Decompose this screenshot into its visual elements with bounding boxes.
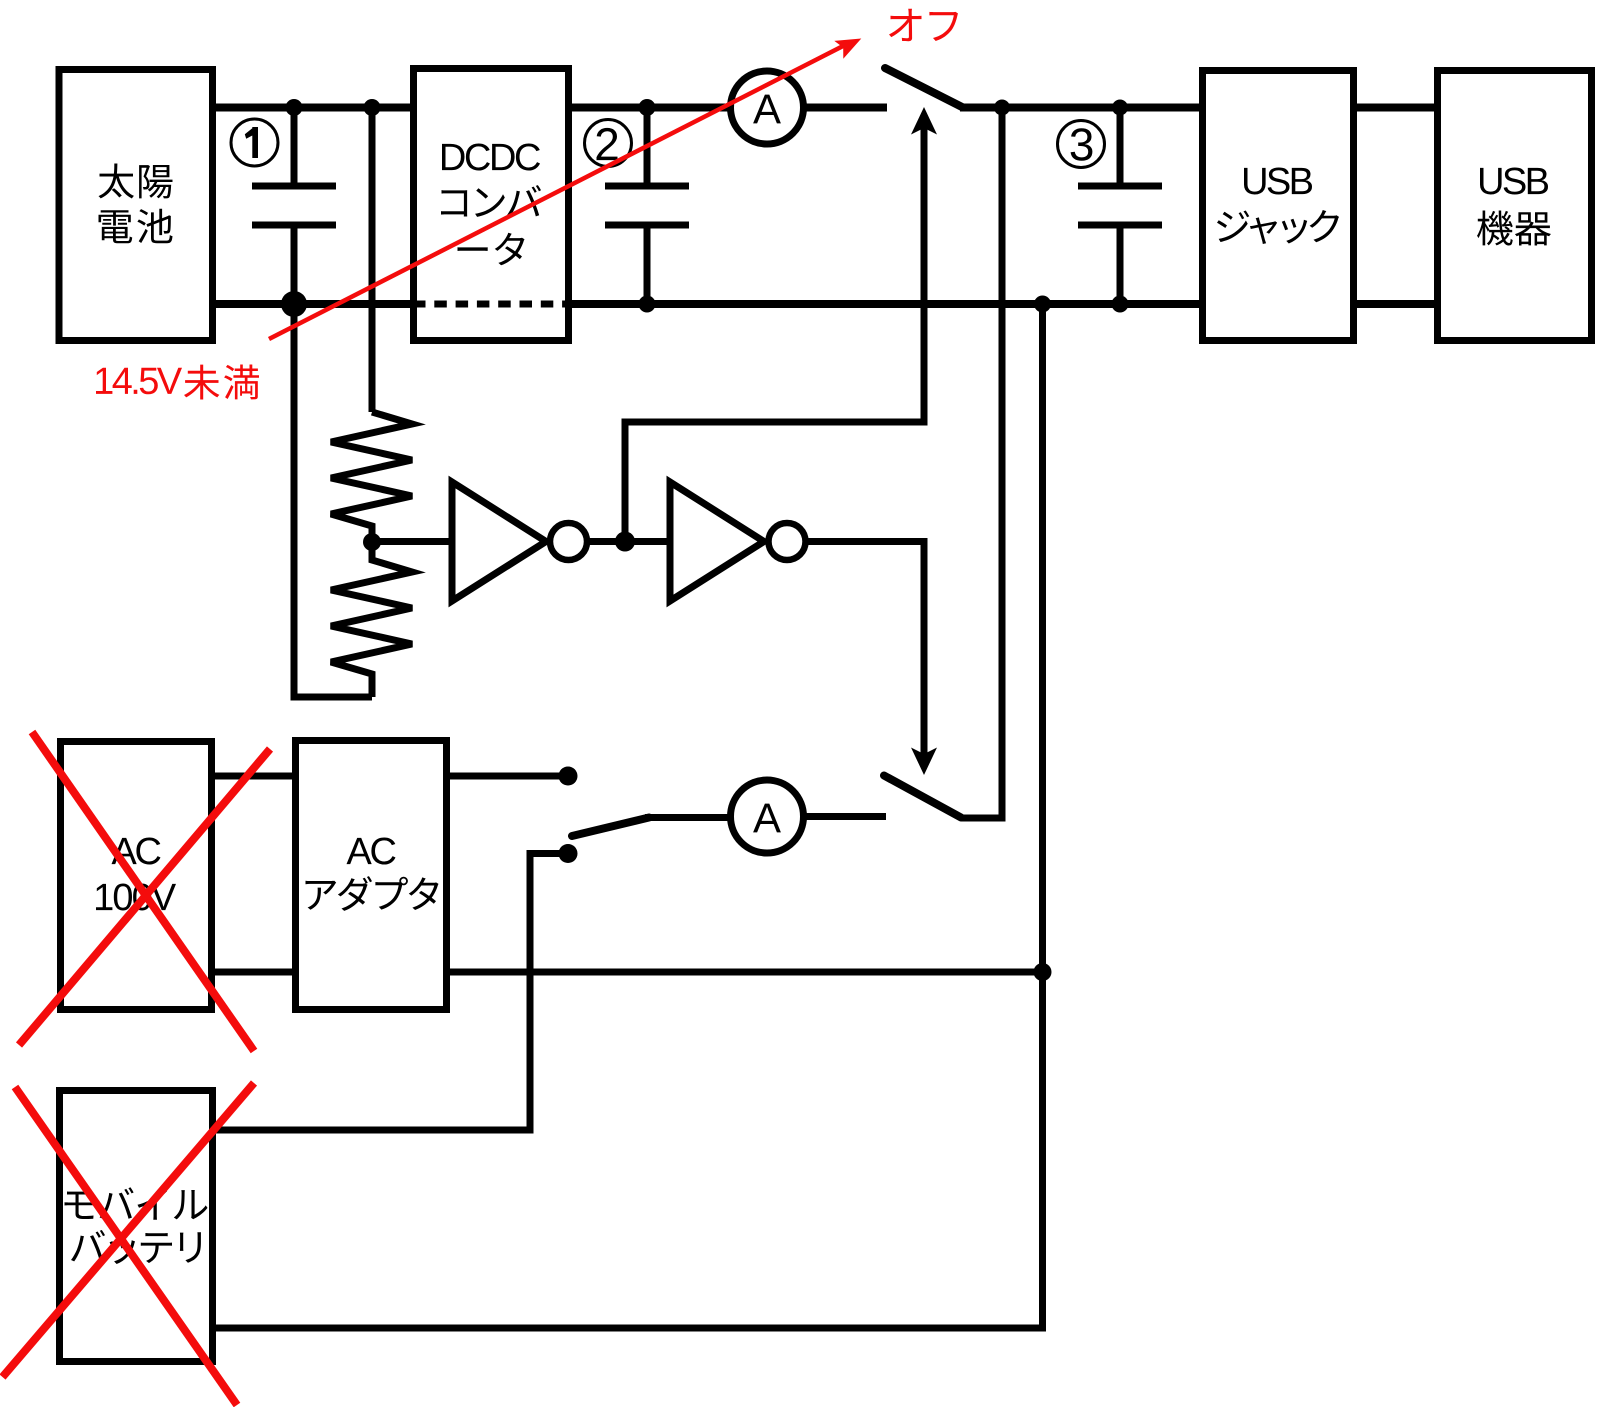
red arrowhead off — [834, 39, 861, 59]
node divider midpoint junction — [363, 533, 381, 551]
resistor R2 — [331, 542, 412, 697]
node number 2 circle — [585, 120, 632, 167]
wire SW3 lower contact to mobile battery — [212, 854, 568, 1131]
USB jack label line2 — [1217, 210, 1339, 244]
red label 14.5V part — [96, 368, 182, 395]
wire top rail solar to DCDC — [212, 104, 414, 112]
capacitor C2 plates — [605, 183, 689, 190]
capacitor C3 plates — [1078, 183, 1162, 190]
capacitor C2 top lead — [644, 108, 651, 187]
wire AC adapter output to SW3 upper contact — [446, 773, 568, 780]
solar battery box — [59, 70, 213, 341]
node number 1 digit — [245, 127, 258, 158]
node U1 output junction — [615, 532, 635, 552]
DCDC converter box U3 — [414, 69, 569, 341]
red X over AC 100V stroke 1 — [32, 732, 254, 1051]
capacitor C3 top lead — [1117, 108, 1124, 187]
node number 3 circle — [1058, 121, 1105, 168]
resistor R1 — [331, 412, 412, 542]
red X over AC 100V stroke 2 — [19, 749, 270, 1045]
wire top rail ammeter A1 to switch SW1 — [802, 104, 887, 112]
wire SW1 output down to SW2 right contact — [961, 108, 1002, 819]
arrowhead pointing up at switch SW1 — [911, 107, 937, 135]
capacitor C1 plates — [252, 183, 336, 190]
capacitor C1 top lead — [291, 108, 298, 187]
wire bottom rail down to battery/adapter return — [1039, 304, 1046, 1328]
solar battery label line1 — [99, 164, 173, 199]
node divider top junction — [364, 99, 381, 116]
inverter U1 bubble — [550, 523, 587, 560]
wire bottom rail DCDC to USB jack — [568, 300, 1203, 308]
red label mimann part — [184, 365, 259, 400]
wire top rail USB jack to USB device — [1353, 104, 1438, 112]
mobile battery label line1 — [65, 1187, 208, 1219]
USB device label line2 — [1477, 211, 1551, 246]
red annotation line 14.5V to off — [269, 45, 845, 339]
node number 3 digit — [1071, 128, 1093, 161]
node bottom rail to AC adapter return junction — [1034, 296, 1051, 313]
mobile battery box — [60, 1091, 213, 1362]
node number 2 digit — [597, 128, 618, 160]
solar battery label line2 — [99, 209, 173, 244]
wire bottom rail dashed inside DCDC — [413, 301, 569, 308]
inverter U1 triangle — [452, 482, 546, 601]
node SW3 lower contact — [559, 844, 578, 863]
wire top rail switch SW1 to USB jack — [960, 104, 1203, 112]
switch SW2 blade — [884, 776, 961, 818]
USB device label line1 — [1480, 168, 1548, 195]
DCDC label line1 — [442, 144, 540, 171]
AC 100V label line1 — [112, 838, 161, 865]
wire AC100V to adapter bottom — [211, 969, 296, 976]
USB device box — [1438, 71, 1592, 341]
wire mobile battery bottom return — [212, 1325, 1046, 1332]
ammeter A1 label A — [753, 95, 781, 124]
red X over mobile battery stroke 2 — [3, 1083, 255, 1377]
node adapter return junction — [1034, 963, 1052, 981]
AC adapter label line2 — [306, 876, 439, 911]
ammeter A2 circle — [731, 780, 804, 853]
capacitor C1 bottom lead — [291, 225, 298, 304]
ammeter A1 circle — [731, 71, 804, 144]
AC 100V box — [61, 742, 212, 1010]
wire ammeter A2 to switch SW2 — [802, 813, 886, 820]
node C3 top junction — [1112, 100, 1128, 116]
AC adapter label line1 — [347, 838, 396, 865]
USB jack label line1 — [1244, 168, 1312, 195]
arrowhead pointing down at switch SW2 — [911, 748, 937, 776]
wire bottom rail solar to DCDC — [212, 300, 414, 308]
capacitor C3 bottom lead — [1117, 225, 1124, 304]
DCDC label line2 — [441, 185, 541, 217]
AC 100V label line2 — [96, 884, 176, 911]
wire SW3 blade to ammeter A2 — [645, 814, 732, 821]
node C2 bottom junction — [639, 296, 656, 313]
ammeter A2 label A — [753, 804, 781, 833]
wire U1 output up to SW1 control arrow — [625, 126, 924, 542]
wire top rail DCDC to ammeter A1 — [568, 104, 732, 112]
red label off — [889, 9, 958, 41]
USB jack box — [1203, 71, 1354, 341]
inverter U2 triangle — [670, 482, 764, 601]
node SW3 upper contact — [559, 767, 578, 786]
wire bottom rail USB jack to USB device — [1353, 300, 1438, 308]
wire AC100V to adapter top — [211, 773, 296, 780]
wire AC adapter bottom to return line — [446, 969, 1043, 976]
switch SW3 blade — [572, 818, 649, 837]
wire resistor top lead from top rail — [369, 108, 376, 413]
inverter U2 bubble — [769, 523, 806, 560]
AC adapter box — [296, 741, 447, 1010]
switch SW1 blade — [885, 68, 963, 108]
capacitor C2 bottom lead — [644, 225, 651, 304]
wire divider midpoint to inverter U1 input — [372, 538, 452, 545]
wire U2 output down to SW2 control arrow — [805, 542, 924, 757]
node SW1 output junction — [994, 100, 1010, 116]
DCDC label line3 — [458, 233, 525, 266]
node C2 top junction — [639, 99, 656, 116]
mobile battery label line2 — [71, 1230, 201, 1264]
node C1 top junction — [286, 99, 303, 116]
wire divider bottom return to bottom rail — [294, 304, 372, 697]
red X over mobile battery stroke 1 — [15, 1087, 237, 1405]
node C3 bottom junction — [1112, 296, 1129, 313]
wire U1 output to U2 input — [587, 538, 670, 545]
node C1 bottom junction — [281, 291, 307, 317]
node number 1 circle — [231, 119, 278, 166]
